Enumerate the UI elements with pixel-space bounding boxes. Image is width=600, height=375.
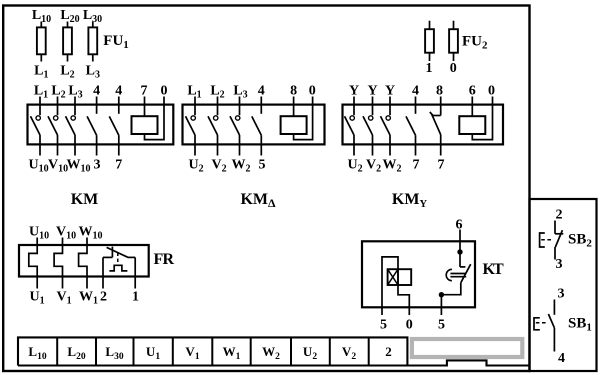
FR NC trip contact bbox=[103, 247, 135, 289]
svg-text:FR: FR bbox=[154, 251, 175, 268]
svg-text:0: 0 bbox=[161, 84, 168, 99]
node V2 (KMy out) bbox=[366, 158, 381, 175]
terminal W1 bbox=[223, 344, 241, 362]
node 4 (SB1 bottom) bbox=[558, 351, 565, 366]
fuse FU1-a bbox=[37, 22, 46, 62]
node 7 (KMy auxNC out) bbox=[438, 158, 445, 173]
node U2 (KMd out) bbox=[188, 158, 203, 175]
fuse FU1-b bbox=[63, 22, 72, 62]
label FU1 bbox=[103, 33, 129, 51]
node L1 (fuse out) bbox=[34, 64, 48, 81]
terminal strip divider 8 bbox=[329, 337, 331, 365]
svg-text:3: 3 bbox=[94, 158, 101, 173]
terminal 2 bbox=[385, 344, 392, 359]
label KM-Y bbox=[392, 191, 428, 210]
node 5 (KT contact) bbox=[438, 318, 445, 333]
node 7 (KMy auxNO out) bbox=[413, 158, 420, 173]
KM main contact 1 bbox=[31, 97, 41, 156]
node Y (KMy in 1) bbox=[349, 84, 359, 99]
node L2 (KM in) bbox=[51, 84, 65, 101]
node 2 (SB2 top) bbox=[556, 208, 563, 223]
node 0 (KMy coil) bbox=[488, 84, 495, 99]
KM aux contact 1 bbox=[87, 97, 97, 156]
node L3 (KM in) bbox=[68, 84, 82, 101]
KT coil to node 0 bbox=[398, 285, 409, 315]
svg-text:Y: Y bbox=[367, 84, 377, 99]
node Y (KMy in 3) bbox=[385, 84, 395, 99]
node W10 (FR in) bbox=[79, 225, 103, 242]
junction dot (6) bbox=[457, 249, 462, 254]
terminal strip divider 3 bbox=[133, 337, 135, 365]
node L2 (fuse out) bbox=[60, 64, 74, 81]
terminal strip divider 9 bbox=[368, 337, 370, 365]
KMd aux contact bbox=[252, 97, 261, 156]
KM coil bbox=[132, 97, 165, 140]
node 6 (KMy coil) bbox=[469, 84, 476, 99]
terminal strip divider 4 bbox=[172, 337, 174, 365]
node 7 (KM aux2 out) bbox=[115, 158, 122, 173]
svg-text:KT: KT bbox=[483, 261, 505, 278]
terminal strip divider 1 bbox=[56, 337, 58, 365]
label KT bbox=[483, 261, 505, 278]
node 0 (FU2 out) bbox=[450, 61, 457, 76]
node 6 (KT in) bbox=[456, 218, 463, 233]
pushbutton SB2 (NC) bbox=[540, 221, 564, 260]
KMy main contact 3 bbox=[381, 97, 391, 156]
KT delayed contact bbox=[446, 264, 471, 283]
svg-text:8: 8 bbox=[436, 84, 443, 99]
svg-text:4: 4 bbox=[115, 84, 122, 99]
KMd main contact 3 bbox=[230, 97, 240, 156]
svg-text:4: 4 bbox=[558, 351, 565, 366]
node U2 (KMy out) bbox=[347, 158, 362, 175]
svg-text:4: 4 bbox=[412, 84, 419, 99]
label KM bbox=[71, 191, 99, 208]
KMy main contact 1 bbox=[345, 97, 355, 156]
svg-text:7: 7 bbox=[115, 158, 122, 173]
label SB1 bbox=[568, 316, 592, 334]
node Y (KMy in 2) bbox=[367, 84, 377, 99]
wire node6 down bbox=[459, 230, 461, 267]
terminal strip divider 5 bbox=[211, 337, 213, 365]
contactor KM-Y box bbox=[343, 105, 504, 145]
terminal U1 bbox=[146, 344, 160, 362]
svg-text:Y: Y bbox=[385, 84, 395, 99]
svg-text:1: 1 bbox=[426, 61, 433, 76]
svg-text:7: 7 bbox=[438, 158, 445, 173]
node W1 bbox=[79, 290, 98, 307]
pushbutton SB1 (NO) bbox=[534, 300, 554, 352]
node 4 (KM aux2 in) bbox=[115, 84, 122, 99]
svg-text:0: 0 bbox=[309, 84, 316, 99]
node L30 bbox=[83, 8, 102, 25]
FR trip element bbox=[109, 265, 127, 271]
node 4 (KMy auxNO in) bbox=[412, 84, 419, 99]
node L3 (fuse out) bbox=[86, 64, 100, 81]
contactor KM-delta box bbox=[183, 105, 325, 145]
node 0 (KM coil) bbox=[161, 84, 168, 99]
KMy main contact 2 bbox=[363, 97, 373, 156]
svg-text:7: 7 bbox=[413, 158, 420, 173]
terminal L30 bbox=[105, 344, 123, 362]
FR heater 3 bbox=[79, 238, 87, 289]
svg-text:6: 6 bbox=[456, 218, 463, 233]
FR trip linkage (dashed) bbox=[117, 253, 119, 265]
node 5 (KT coil) bbox=[380, 318, 387, 333]
node V1 bbox=[56, 290, 71, 307]
node L2 (KMd in) bbox=[210, 84, 224, 101]
node 8 (KMy auxNC in) bbox=[436, 84, 443, 99]
terminal strip connector (gray) bbox=[412, 339, 522, 357]
svg-text:0: 0 bbox=[406, 318, 413, 333]
svg-text:4: 4 bbox=[258, 84, 265, 99]
FR heater 2 bbox=[54, 238, 62, 289]
KMy aux NC contact bbox=[430, 97, 441, 156]
KMd main contact 1 bbox=[186, 97, 196, 156]
terminal L10 bbox=[28, 344, 46, 362]
KMy coil bbox=[459, 97, 492, 140]
KMd main contact 2 bbox=[208, 97, 218, 156]
svg-text:2: 2 bbox=[556, 208, 563, 223]
node L10 bbox=[32, 8, 51, 25]
node 0 (KT coil) bbox=[406, 318, 413, 333]
node V10 bbox=[48, 158, 68, 175]
KMd coil bbox=[281, 97, 313, 140]
svg-text:2: 2 bbox=[100, 290, 107, 305]
node W2 (KMd out) bbox=[232, 158, 251, 175]
time relay KT box bbox=[362, 241, 475, 307]
node 3 (SB1 top) bbox=[558, 287, 565, 302]
wire contact to node 5 bbox=[441, 283, 460, 315]
node W10 bbox=[67, 158, 91, 175]
terminal strip divider 7 bbox=[290, 337, 292, 365]
node 8 (KMd coil) bbox=[290, 84, 297, 99]
label SB2 bbox=[568, 232, 592, 250]
label FU2 bbox=[462, 34, 488, 52]
node V10 (FR in) bbox=[56, 225, 76, 242]
junction dot (5) bbox=[439, 292, 444, 297]
thermal relay FR box bbox=[19, 245, 149, 277]
label FR bbox=[154, 251, 175, 268]
svg-text:3: 3 bbox=[556, 257, 563, 272]
node 4 (KMd aux in) bbox=[258, 84, 265, 99]
node W2 (KMy out) bbox=[383, 158, 402, 175]
fuse FU1-c bbox=[88, 22, 97, 62]
node L3 (KMd in) bbox=[233, 84, 247, 101]
node 0 (KMd coil) bbox=[309, 84, 316, 99]
node 3 (SB2 bottom) bbox=[556, 257, 563, 272]
svg-text:4: 4 bbox=[93, 84, 100, 99]
node L1 (KMd in) bbox=[187, 84, 201, 101]
svg-text:5: 5 bbox=[380, 318, 387, 333]
FR heater 1 bbox=[29, 238, 37, 289]
terminal strip divider 2 bbox=[95, 337, 97, 365]
terminal W2 bbox=[262, 344, 280, 362]
KM main contact 3 bbox=[66, 97, 76, 156]
node 7 (KM coil) bbox=[141, 84, 148, 99]
svg-text:8: 8 bbox=[290, 84, 297, 99]
svg-text:3: 3 bbox=[558, 287, 565, 302]
svg-text:7: 7 bbox=[141, 84, 148, 99]
terminal L20 bbox=[67, 344, 85, 362]
svg-text:1: 1 bbox=[132, 290, 139, 305]
node U1 bbox=[29, 290, 44, 307]
node U10 (FR in) bbox=[29, 225, 49, 242]
KT coil (crossed box) bbox=[388, 269, 412, 285]
KT coil wiring bbox=[382, 257, 398, 315]
node U10 bbox=[28, 158, 48, 175]
KMy aux NO contact bbox=[406, 97, 416, 156]
node 4 (KM aux1 in) bbox=[93, 84, 100, 99]
node 1 (FR contact) bbox=[132, 290, 139, 305]
node 5 (KMd aux out) bbox=[259, 158, 266, 173]
node L20 bbox=[60, 8, 79, 25]
terminal strip divider 6 bbox=[250, 337, 252, 365]
svg-text:0: 0 bbox=[488, 84, 495, 99]
terminal V1 bbox=[185, 344, 199, 362]
KM main contact 2 bbox=[48, 97, 58, 156]
svg-text:6: 6 bbox=[469, 84, 476, 99]
fuse FU2-b bbox=[449, 21, 458, 61]
node 3 (KM aux1 out) bbox=[94, 158, 101, 173]
svg-text:KM: KM bbox=[71, 191, 99, 208]
svg-text:Y: Y bbox=[349, 84, 359, 99]
contactor KM box bbox=[28, 105, 174, 145]
fuse FU2-a bbox=[425, 21, 434, 61]
node L1 (KM in) bbox=[34, 84, 48, 101]
terminal U2 bbox=[303, 344, 317, 362]
svg-text:5: 5 bbox=[438, 318, 445, 333]
node V2 (KMd out) bbox=[211, 158, 226, 175]
node 1 (FU2 out) bbox=[426, 61, 433, 76]
svg-text:2: 2 bbox=[385, 344, 392, 359]
svg-text:5: 5 bbox=[259, 158, 266, 173]
label KM-delta bbox=[240, 191, 276, 210]
terminal V2 bbox=[342, 344, 356, 362]
button-station box bbox=[530, 199, 597, 371]
terminal strip outline bbox=[18, 337, 530, 365]
svg-text:0: 0 bbox=[450, 61, 457, 76]
KM aux contact 2 bbox=[109, 97, 119, 156]
node 2 (FR contact) bbox=[100, 290, 107, 305]
